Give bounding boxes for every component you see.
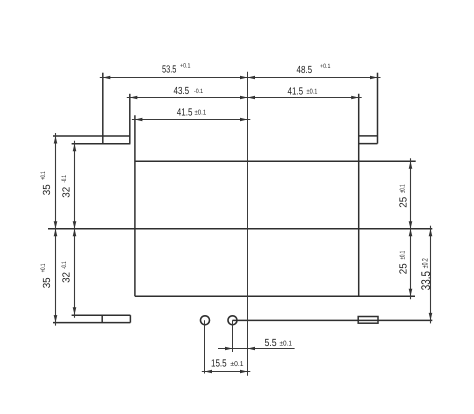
svg-text:25: 25 — [398, 263, 409, 274]
svg-text:41.5: 41.5 — [177, 107, 193, 118]
svg-text:±0.1: ±0.1 — [400, 251, 407, 260]
svg-text:±0.2: ±0.2 — [421, 258, 430, 268]
svg-text:±0.1: ±0.1 — [280, 340, 293, 347]
svg-text:+0.1: +0.1 — [320, 63, 331, 70]
svg-text:±0.1: ±0.1 — [307, 89, 318, 96]
svg-text:53.5: 53.5 — [162, 65, 177, 76]
svg-text:32: 32 — [61, 187, 72, 198]
svg-text:±0.1: ±0.1 — [400, 184, 407, 193]
svg-text:±0.1: ±0.1 — [230, 361, 243, 368]
svg-text:-0.1: -0.1 — [194, 88, 204, 95]
svg-text:±0.1: ±0.1 — [195, 110, 207, 117]
svg-text:35: 35 — [42, 277, 53, 288]
svg-text:-0.1: -0.1 — [61, 175, 68, 183]
svg-text:32: 32 — [61, 272, 72, 283]
svg-text:35: 35 — [42, 184, 53, 195]
svg-text:+0.1: +0.1 — [40, 263, 47, 272]
svg-text:33.5: 33.5 — [419, 271, 433, 290]
svg-text:-0.1: -0.1 — [61, 261, 68, 269]
svg-text:+0.1: +0.1 — [40, 171, 47, 180]
svg-text:43.5: 43.5 — [174, 86, 190, 97]
svg-text:25: 25 — [398, 197, 409, 208]
svg-text:+0.1: +0.1 — [180, 63, 191, 70]
svg-text:41.5: 41.5 — [288, 86, 304, 97]
svg-text:5.5: 5.5 — [265, 338, 277, 349]
svg-text:15.5: 15.5 — [211, 359, 227, 370]
svg-text:48.5: 48.5 — [297, 65, 313, 76]
